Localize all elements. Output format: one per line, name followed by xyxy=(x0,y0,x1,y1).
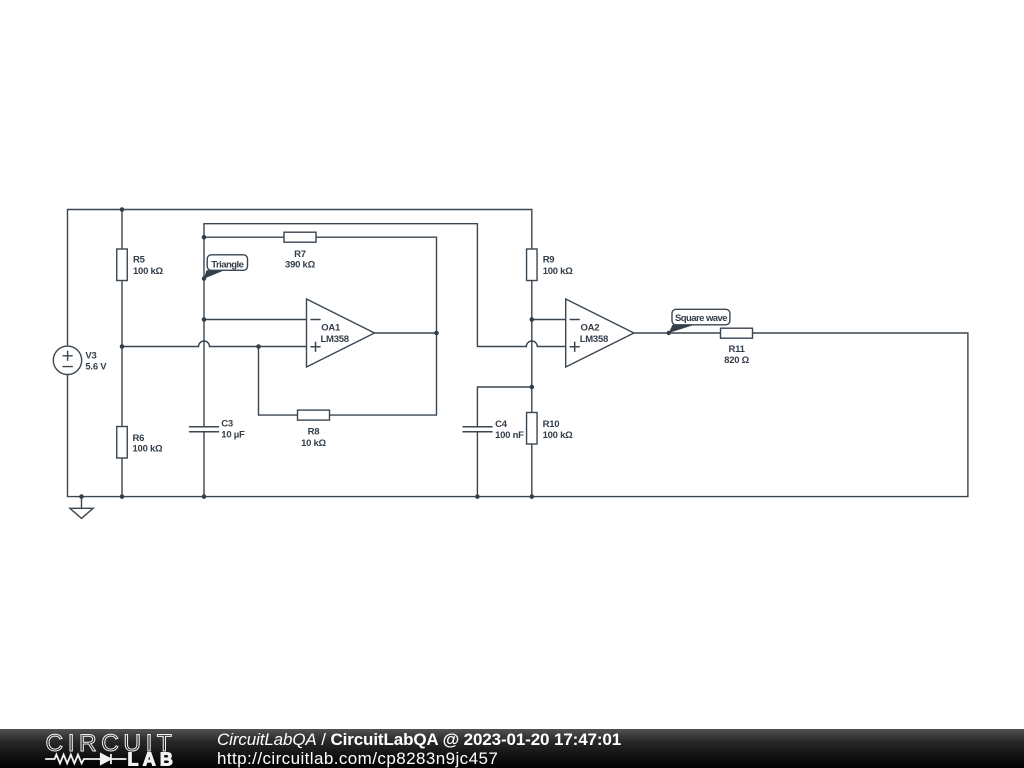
svg-text:Square wave: Square wave xyxy=(675,313,727,324)
junction R5/R6/OA1 plus node xyxy=(120,344,125,349)
wire R10 top lead xyxy=(531,387,533,413)
svg-text:100 nF: 100 nF xyxy=(495,430,524,441)
svg-text:Triangle: Triangle xyxy=(211,259,243,270)
wire OA2 minus node down to C4/R10 node xyxy=(531,320,533,388)
svg-text:100 kΩ: 100 kΩ xyxy=(133,266,164,277)
svg-text:C3: C3 xyxy=(221,418,233,429)
footer bar xyxy=(0,729,1024,768)
svg-text:R10: R10 xyxy=(543,419,560,430)
svg-text:LM358: LM358 xyxy=(580,334,608,345)
voltage source V3 xyxy=(53,346,81,374)
junction R5 top on positive rail xyxy=(120,207,125,212)
resistor R10 xyxy=(527,413,574,445)
junction OA1 output node xyxy=(434,331,439,336)
svg-text:10 kΩ: 10 kΩ xyxy=(301,438,326,449)
wire OA2 minus input xyxy=(532,319,566,321)
capacitor C3 xyxy=(190,418,245,440)
svg-text:100 kΩ: 100 kΩ xyxy=(133,444,164,455)
wire R8 left lead up to OA1 plus node xyxy=(259,347,298,416)
svg-text:V3: V3 xyxy=(85,351,96,362)
resistor R8 xyxy=(298,410,330,449)
junction ground symbol on ground rail xyxy=(79,494,84,499)
wire R7 right lead to OA1 output xyxy=(316,237,437,333)
resistor R6 xyxy=(117,427,163,459)
svg-text:OA2: OA2 xyxy=(581,322,600,333)
wire R7 left lead xyxy=(204,236,284,238)
wire C4 top connection xyxy=(477,387,531,427)
wire C3 bottom lead xyxy=(203,432,205,497)
junction R10 bottom on ground rail xyxy=(530,494,535,499)
svg-text:R11: R11 xyxy=(729,344,746,355)
wire R9 bottom lead to OA2 minus node xyxy=(531,281,533,320)
resistor R5 xyxy=(117,249,164,281)
wire OA1 plus input from V3 node (hop over triangle net) xyxy=(122,341,307,347)
wire R5 top lead xyxy=(121,210,123,250)
wire R5 bottom lead to node xyxy=(121,281,123,347)
svg-text:390 kΩ: 390 kΩ xyxy=(285,259,316,270)
capacitor C4 xyxy=(463,419,524,441)
resistor R11 xyxy=(721,328,753,366)
wire R6 bottom lead xyxy=(121,458,123,497)
wire R6 top lead xyxy=(121,347,123,427)
wire OA2 output to R11 xyxy=(634,332,721,334)
svg-text:R5: R5 xyxy=(133,255,146,266)
svg-text:820 Ω: 820 Ω xyxy=(724,355,749,366)
wire OA1 output down to R8 xyxy=(330,333,437,415)
node Triangle flag xyxy=(202,255,248,281)
junction C4/R10 node xyxy=(530,385,535,390)
junction R6 bottom on ground rail xyxy=(120,494,125,499)
svg-text:100 kΩ: 100 kΩ xyxy=(543,430,574,441)
CircuitLab logo xyxy=(0,729,200,768)
wire R10 bottom lead xyxy=(531,444,533,497)
svg-text:R9: R9 xyxy=(543,255,555,266)
label V3 value xyxy=(85,351,107,373)
op-amp OA1 xyxy=(307,299,375,367)
junction C4 bottom on ground rail xyxy=(475,494,480,499)
svg-text:OA1: OA1 xyxy=(321,322,341,333)
junction R8 tap on OA1 plus wire xyxy=(256,344,261,349)
svg-text:5.6 V: 5.6 V xyxy=(85,362,107,373)
wire positive rail: V3 top, top rail, R9 top lead xyxy=(68,210,532,347)
svg-text:10 µF: 10 µF xyxy=(221,430,245,441)
svg-text:R8: R8 xyxy=(308,427,320,438)
junction OA2 minus input node xyxy=(530,317,535,322)
node Square wave flag xyxy=(667,309,730,335)
footer line 2 xyxy=(217,750,498,767)
svg-text:LAB: LAB xyxy=(128,750,178,768)
svg-text:R6: R6 xyxy=(133,433,145,444)
junction OA1 minus input on triangle node xyxy=(202,317,207,322)
svg-text:C4: C4 xyxy=(495,419,508,430)
wire OA1 output xyxy=(375,332,437,334)
junction C3 bottom on ground rail xyxy=(202,494,207,499)
svg-text:LM358: LM358 xyxy=(321,334,349,345)
wire triangle node vertical (R7 tap, OA1 minus tap, C3 top) xyxy=(203,224,205,427)
footer line 1 xyxy=(217,731,621,748)
resistor R7 xyxy=(284,232,316,270)
wire OA1 minus input xyxy=(204,319,307,321)
op-amp OA2 xyxy=(566,299,634,367)
resistor R9 xyxy=(527,249,574,281)
wire V3 bottom lead, ground rail, output return right side xyxy=(68,333,968,497)
wire triangle node to OA2 plus input (hop over R9 net) xyxy=(204,224,566,347)
svg-text:100 kΩ: 100 kΩ xyxy=(543,266,574,277)
wire C4 bottom lead xyxy=(476,432,478,497)
junction R7 left on triangle node xyxy=(202,235,207,240)
ground xyxy=(70,497,93,519)
